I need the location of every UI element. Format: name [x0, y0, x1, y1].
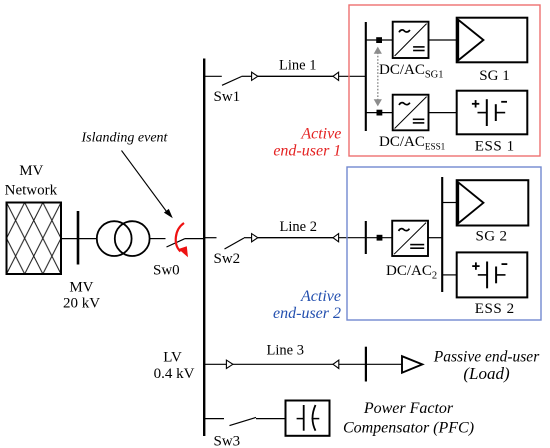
switch Sw2 [205, 238, 252, 249]
node square ESS1 tap [377, 110, 383, 116]
wire Line 2 to end-user 2 tap [339, 237, 366, 239]
wire tap to DC/AC 2 [366, 237, 392, 239]
Line 2 sending-end arrow [252, 234, 258, 242]
svg-text:LV: LV [163, 349, 182, 365]
svg-text:Compensator (PFC): Compensator (PFC) [343, 420, 474, 437]
measurement dotted arrow between taps [374, 47, 382, 107]
svg-text:Active: Active [300, 126, 341, 143]
Line 1 receiving-end arrow [333, 72, 339, 80]
svg-text:DC/AC2: DC/AC2 [386, 263, 437, 281]
svg-text:Passive end-user: Passive end-user [433, 348, 540, 365]
svg-text:Sw2: Sw2 [214, 251, 241, 267]
wire bus 2 to ESS2 [442, 274, 456, 276]
svg-text:ESS 1: ESS 1 [475, 139, 515, 155]
wire Line 1 to end-user 1 bus [339, 75, 366, 77]
Line 3 feeder [205, 363, 226, 365]
wire Line 3 to load bar [339, 363, 366, 365]
Line 1 sending-end arrow [252, 72, 258, 80]
converter DC/AC ESS1 [393, 95, 429, 131]
generator SG 2 box [457, 180, 529, 225]
wire Sw0 to bus [185, 238, 204, 240]
MV bus bar [77, 211, 80, 265]
storage ESS 1 box [457, 91, 528, 135]
red frame Active end-user 1 [349, 5, 540, 156]
svg-text:Line 2: Line 2 [280, 219, 317, 235]
Line 2 receiving-end arrow [333, 234, 339, 242]
svg-text:SG 2: SG 2 [476, 228, 508, 244]
switch Sw3 [205, 417, 285, 425]
svg-text:0.4 kV: 0.4 kV [154, 366, 195, 382]
passive end-user bus bar [365, 347, 367, 382]
wire bus 2 to SG2 [442, 202, 456, 204]
node square SG1 tap [376, 37, 382, 43]
svg-text:MV: MV [69, 280, 93, 296]
wire bar to load [366, 363, 402, 365]
svg-text:end-user 1: end-user 1 [273, 142, 341, 159]
wire Line 1 [258, 75, 333, 77]
storage ESS 2 box [457, 252, 528, 297]
svg-text:Network: Network [5, 183, 58, 199]
svg-text:Line 1: Line 1 [279, 57, 316, 73]
svg-text:SG 1: SG 1 [479, 68, 509, 84]
wire DC/AC SG1 to SG1 [429, 39, 457, 41]
svg-text:(Load): (Load) [463, 364, 510, 383]
svg-text:Sw1: Sw1 [214, 89, 241, 105]
end-user 1 bus [365, 22, 367, 131]
end-user 2 tap bar [365, 221, 367, 254]
svg-text:Power Factor: Power Factor [363, 400, 454, 417]
wire DC/AC ESS1 to ESS1 [429, 112, 457, 114]
svg-text:end-user 2: end-user 2 [273, 305, 341, 322]
generator SG 1 box [457, 18, 528, 63]
svg-text:ESS 2: ESS 2 [475, 301, 515, 317]
red arc islanding break at Sw0 [176, 223, 188, 257]
svg-text:MV: MV [19, 163, 43, 179]
transformer T1 [97, 221, 132, 256]
svg-text:Islanding event: Islanding event [81, 130, 169, 145]
wire tap to DC/AC SG1 [366, 39, 393, 41]
svg-text:Sw3: Sw3 [214, 433, 241, 448]
converter DC/AC 2 [392, 221, 428, 256]
PFC capacitor box [286, 401, 330, 436]
switch Sw0 blade [167, 239, 185, 247]
svg-text:20 kV: 20 kV [63, 296, 100, 312]
svg-text:Active: Active [300, 288, 341, 305]
Line 3 sending-end arrow [226, 360, 233, 368]
wire DC/AC 2 to bus 2 [428, 237, 442, 239]
converter DC/AC SG1 [393, 22, 429, 58]
svg-text:Line 3: Line 3 [267, 342, 304, 358]
wire transformer to Sw0 [150, 238, 166, 240]
load triangle (passive end-user) [402, 356, 422, 373]
node square end-user 2 tap [377, 235, 383, 241]
LV bus (main vertical busbar) [203, 59, 205, 437]
svg-text:Sw0: Sw0 [153, 263, 180, 279]
wire Line 3 [233, 363, 333, 365]
switch Sw1 [205, 76, 252, 85]
wire MV box to transformer [61, 238, 97, 240]
wire Line 2 [258, 237, 333, 239]
Line 3 receiving-end arrow [333, 360, 339, 368]
wire tap to DC/AC ESS1 [366, 112, 393, 114]
MV network source box [7, 203, 62, 275]
end-user 2 bus [441, 177, 443, 292]
blue frame Active end-user 2 [347, 167, 541, 320]
islanding event arrow [122, 151, 173, 219]
